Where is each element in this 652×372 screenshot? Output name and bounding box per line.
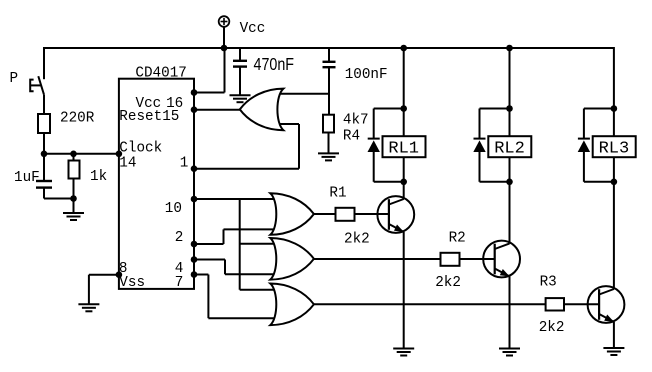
svg-text:CD4017: CD4017 [135,66,186,82]
svg-text:2: 2 [175,230,184,246]
svg-text:RL3: RL3 [599,139,630,158]
svg-text:220R: 220R [60,111,95,127]
svg-text:R2: R2 [449,231,466,247]
svg-text:100nF: 100nF [345,67,388,83]
svg-text:Reset15: Reset15 [119,109,179,125]
svg-text:2k2: 2k2 [435,275,461,291]
svg-text:R1: R1 [329,185,346,201]
svg-text:1: 1 [180,156,189,172]
svg-text:10: 10 [165,201,182,217]
svg-text:14: 14 [119,156,136,172]
svg-text:RL2: RL2 [494,139,525,158]
svg-text:1uF: 1uF [14,170,40,186]
svg-text:RL1: RL1 [388,139,419,158]
svg-text:Vcc: Vcc [240,21,266,37]
svg-text:R4: R4 [343,128,360,144]
svg-text:1k: 1k [90,169,107,185]
svg-text:470nF: 470nF [254,54,295,74]
svg-text:Clock: Clock [119,140,162,156]
svg-text:R3: R3 [540,275,557,291]
svg-text:2k2: 2k2 [344,231,370,247]
svg-text:7: 7 [175,275,184,291]
svg-text:P: P [10,71,19,87]
svg-text:2k2: 2k2 [539,320,565,336]
svg-text:Vss: Vss [119,275,145,291]
svg-text:4k7: 4k7 [343,113,369,129]
